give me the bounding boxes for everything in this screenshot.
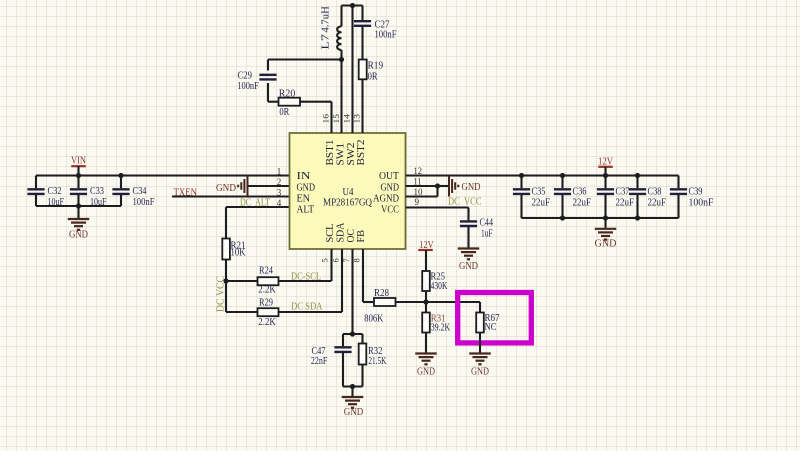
resistor R31 <box>422 313 430 333</box>
inductor L7 coil <box>337 26 341 50</box>
resistor R21 <box>222 239 230 260</box>
svg-text:1uF: 1uF <box>481 228 493 239</box>
wire R24 to pin 5 <box>279 280 332 282</box>
ground at pin 11 (right-facing) <box>449 176 458 197</box>
svg-text:C39: C39 <box>689 186 703 197</box>
capacitor C29 <box>259 75 276 80</box>
svg-text:39.2K: 39.2K <box>431 322 451 333</box>
resistor R32 <box>361 334 363 344</box>
capacitor C33 <box>77 176 79 189</box>
svg-text:MP28167GQ: MP28167GQ <box>323 198 372 209</box>
wire C29 top to SW1 column <box>268 58 342 60</box>
svg-text:OUT: OUT <box>379 171 400 182</box>
capacitor C47 <box>342 334 344 346</box>
svg-text:BST2: BST2 <box>356 140 367 166</box>
svg-text:100nF: 100nF <box>133 197 155 208</box>
resistor R19 <box>359 60 367 80</box>
wire OC pin 7 vertical <box>351 249 353 334</box>
wire OUT pin 12 row / 12V rail <box>406 174 679 176</box>
svg-text:100nF: 100nF <box>237 81 259 92</box>
svg-text:100nF: 100nF <box>375 30 397 41</box>
svg-text:4.7uH: 4.7uH <box>321 6 332 33</box>
svg-text:C29: C29 <box>238 70 253 81</box>
wire top rail SW node <box>342 4 363 6</box>
wire R25 to junction <box>425 291 427 302</box>
svg-text:FB: FB <box>356 230 367 243</box>
svg-text:IN: IN <box>297 171 312 182</box>
node VIN-C33 junction <box>76 173 81 178</box>
wire junction to R31 <box>425 302 427 313</box>
capacitor C38 <box>636 176 638 189</box>
svg-text:5: 5 <box>320 258 330 262</box>
svg-text:R20: R20 <box>279 88 296 99</box>
svg-text:AGND: AGND <box>373 194 399 205</box>
svg-text:22uF: 22uF <box>532 197 551 208</box>
svg-text:BST1: BST1 <box>325 140 336 166</box>
svg-text:GND: GND <box>297 183 316 194</box>
node C35 top junction <box>519 173 524 178</box>
wire feedback node to R67 <box>479 302 481 313</box>
svg-text:100nF: 100nF <box>689 197 714 208</box>
resistor R25 <box>422 271 430 291</box>
resistor R20 <box>300 101 332 103</box>
svg-text:R24: R24 <box>259 265 274 276</box>
node bottom rail GND junction <box>76 203 81 208</box>
wire R24 row / SCL <box>226 280 258 282</box>
wire R21 to DC VCC rail <box>225 260 227 313</box>
svg-text:806K: 806K <box>364 313 383 324</box>
svg-text:0R: 0R <box>279 107 289 118</box>
node bottom rail junction <box>350 384 355 389</box>
wire R67 to ground <box>479 333 481 353</box>
wire GND pin 11 row <box>406 185 438 187</box>
svg-text:22nF: 22nF <box>311 356 328 367</box>
svg-text:4: 4 <box>277 198 282 208</box>
wire VCC pin 9 row <box>406 206 469 208</box>
op-amp/regulator U4 MP28167GQ body <box>290 133 406 249</box>
svg-text:VCC: VCC <box>381 205 399 216</box>
ground below input caps <box>68 219 90 230</box>
svg-text:C37: C37 <box>616 186 630 197</box>
svg-text:C38: C38 <box>648 186 662 197</box>
wire R19 to pin 13 <box>361 79 363 133</box>
resistor R29 <box>258 308 279 316</box>
resistor R28 <box>374 298 396 306</box>
node C36 top junction <box>560 173 565 178</box>
wire C47/R32 top rail <box>343 333 363 335</box>
wire GND stem below C33 <box>77 206 79 218</box>
wire junction to right ground <box>438 185 450 187</box>
wire R28 to feedback node <box>396 301 481 303</box>
svg-text:U4: U4 <box>343 187 355 198</box>
svg-text:16: 16 <box>320 114 330 124</box>
svg-text:C44: C44 <box>480 217 494 228</box>
svg-text:GND: GND <box>69 230 88 241</box>
wire R31 to ground <box>425 333 427 353</box>
ground at pin 2 (left-facing) <box>238 176 247 197</box>
svg-text:2: 2 <box>277 177 282 187</box>
wire GND stem below R32 <box>351 387 353 397</box>
node C37 top junction <box>603 173 608 178</box>
wire TXEN to pin 3 <box>172 195 290 197</box>
wire GND stem below cap bank <box>604 218 606 228</box>
node R24 tee junction <box>223 278 228 283</box>
svg-text:EN: EN <box>297 194 311 205</box>
wire FB row to R28 <box>363 301 374 303</box>
svg-text:3: 3 <box>277 187 282 197</box>
wire R29 to pin 6 <box>279 311 343 313</box>
wire VIN rail (pin 1 row) <box>36 174 290 176</box>
wire input cap bottom rail <box>36 205 121 207</box>
capacitor C44 <box>460 221 477 226</box>
svg-text:VIN: VIN <box>71 156 86 167</box>
wire pin 4 / ALT net <box>226 206 290 208</box>
ground below output caps <box>595 229 617 240</box>
svg-text:1: 1 <box>277 166 282 176</box>
node C47/R32 top junction <box>350 331 355 336</box>
svg-text:C32: C32 <box>48 186 62 197</box>
ground below R31 <box>415 354 437 365</box>
node C38 top junction <box>635 173 640 178</box>
svg-text:C33: C33 <box>90 186 104 197</box>
svg-text:GND: GND <box>462 182 481 193</box>
svg-text:ALT: ALT <box>297 205 315 216</box>
capacitor C32 <box>35 176 37 189</box>
svg-text:DC VCC: DC VCC <box>448 196 482 207</box>
capacitor C35 <box>520 176 522 189</box>
svg-text:GND: GND <box>459 261 478 272</box>
svg-text:R19: R19 <box>368 60 384 71</box>
svg-text:22uF: 22uF <box>616 197 635 208</box>
wire C29 bottom to R20 <box>268 101 279 103</box>
wire FB pin 8 vertical <box>362 249 364 302</box>
svg-text:SDA: SDA <box>336 222 347 242</box>
wire AGND pin 10 row <box>406 195 438 197</box>
wire SW2 pin 14 vertical <box>351 6 353 134</box>
svg-text:GND: GND <box>417 367 435 378</box>
svg-text:C34: C34 <box>133 186 148 197</box>
svg-text:GND: GND <box>216 183 236 194</box>
svg-text:2.2K: 2.2K <box>258 317 276 328</box>
svg-text:SW1: SW1 <box>336 143 347 166</box>
ground below R67 <box>469 354 491 365</box>
svg-text:GND: GND <box>381 183 400 194</box>
svg-text:22uF: 22uF <box>573 197 592 208</box>
wire BST1 pin 16 vertical <box>330 102 332 133</box>
node feedback junction R25/R31 <box>423 299 428 304</box>
svg-text:21.5K: 21.5K <box>368 356 386 367</box>
svg-text:14: 14 <box>341 113 351 123</box>
svg-text:NC: NC <box>485 322 497 333</box>
wire R29 row / SDA <box>226 311 258 313</box>
inductor L7 lower lead <box>340 50 342 60</box>
node VIN-C34 junction <box>118 173 123 178</box>
node bottom rail junctions <box>560 215 565 220</box>
svg-text:R28: R28 <box>374 288 389 299</box>
svg-text:L7: L7 <box>321 34 332 50</box>
svg-text:GND: GND <box>595 238 617 249</box>
svg-text:10K: 10K <box>231 248 246 259</box>
wire output cap bottom rail <box>522 217 679 219</box>
capacitor C37 <box>604 176 606 189</box>
wire C47/R32 bottom rail <box>343 385 363 387</box>
node SW2 top junction <box>350 3 355 8</box>
svg-text:0R: 0R <box>368 71 378 82</box>
ground below C47/R32 <box>342 397 364 408</box>
svg-text:9: 9 <box>415 197 420 207</box>
svg-text:C36: C36 <box>573 186 587 197</box>
svg-text:GND: GND <box>344 407 364 418</box>
svg-text:SCL: SCL <box>325 224 336 243</box>
capacitor C27 <box>354 21 371 26</box>
inductor L7 upper lead <box>340 6 342 27</box>
resistor R24 <box>258 277 279 285</box>
highlight box around R67 <box>458 293 532 343</box>
capacitor C36 <box>561 176 563 189</box>
svg-text:C35: C35 <box>532 186 546 197</box>
node pin 11/10 junction <box>435 183 440 188</box>
resistor R67 <box>476 313 484 333</box>
capacitor C34 <box>120 176 122 189</box>
ground below C44 <box>458 249 480 260</box>
wire pin 2 to ground <box>248 185 290 187</box>
svg-text:DC SDA: DC SDA <box>291 301 323 312</box>
svg-text:12V: 12V <box>598 156 614 167</box>
svg-text:R29: R29 <box>259 297 273 308</box>
capacitor C39 <box>677 176 679 189</box>
svg-text:GND: GND <box>471 367 489 378</box>
wire BST2 top lead <box>361 6 363 21</box>
wire SW1 pin 15 vertical <box>340 60 342 134</box>
svg-text:2.2K: 2.2K <box>258 285 276 296</box>
svg-text:22uF: 22uF <box>648 197 667 208</box>
svg-text:430K: 430K <box>431 281 448 292</box>
node SW1 junction <box>339 57 344 62</box>
svg-text:DC VCC: DC VCC <box>216 276 227 312</box>
